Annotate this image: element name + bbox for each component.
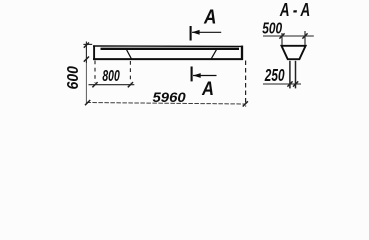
tick 5960 right (243, 101, 248, 106)
section web line right (295, 61, 297, 89)
svg-text:250: 250 (264, 67, 285, 86)
tick 250 right (293, 81, 298, 86)
dimension 500 (263, 31, 314, 48)
section cut mark top (191, 26, 222, 41)
extension dashed right (129, 61, 131, 83)
wire beam inner thick chord (101, 48, 240, 50)
section web line left (289, 61, 291, 89)
tick 800 right (128, 82, 133, 87)
wire beam right edge (241, 46, 243, 60)
tick 500 right (302, 33, 307, 38)
extension right (304, 31, 306, 48)
tick 500 left (279, 33, 284, 38)
extension dashed left (94, 61, 96, 84)
tick 250 left (287, 81, 292, 86)
extension line top (83, 43, 92, 45)
section cut mark bottom (192, 67, 217, 82)
dimension 5960 (85, 61, 248, 107)
tick 600 bottom (84, 57, 89, 62)
svg-text:800: 800 (102, 67, 120, 85)
svg-text:A: A (201, 78, 214, 100)
dimension 800 (89, 61, 135, 88)
svg-text:A: A (203, 6, 216, 29)
wire beam left edge (93, 45, 95, 60)
section A-A trapezoid body (282, 46, 306, 59)
svg-text:A - A: A - A (279, 0, 310, 21)
extension left (281, 33, 283, 48)
tick 5960 left (85, 100, 90, 105)
extension dashed right (245, 61, 247, 107)
tick 800 left (92, 82, 97, 87)
dimension 600 vertical line (83, 42, 92, 104)
svg-text:5960: 5960 (153, 90, 186, 106)
wire beam left diagonal (127, 50, 132, 59)
wire beam bottom line (93, 58, 243, 60)
svg-text:600: 600 (66, 65, 83, 89)
tick 600 top (84, 43, 89, 48)
svg-text:500: 500 (262, 19, 282, 37)
dimension 250 (263, 81, 301, 86)
beam side view outline (93, 45, 243, 60)
wire beam top line (93, 45, 243, 47)
wire beam right diagonal (211, 48, 217, 59)
